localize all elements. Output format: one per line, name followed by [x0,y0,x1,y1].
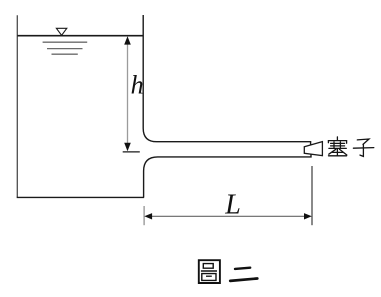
L dimension right tick [311,166,313,225]
tank bottom [17,196,144,198]
water hatch line 3 [52,53,78,55]
svg-text:L: L [224,190,241,221]
glyph 塞 [328,137,346,156]
L dimension left tick [143,206,145,225]
water hatch line 2 [47,48,83,50]
glyph 圖 [199,260,220,283]
water hatch line 1 [43,41,88,43]
L arrowhead left [144,213,152,219]
caption 圖二 (drawn glyphs, bold) [199,260,257,283]
tank right wall + pipe top line + pipe end cap [143,15,310,145]
label 塞子 (drawn glyphs) [328,137,373,157]
svg-text:h: h [131,71,144,100]
h arrowhead bottom [124,143,131,151]
h bottom reference tick [123,151,140,153]
water level triangle symbol [56,28,66,35]
h arrowhead top [124,36,131,44]
L dimension arrow line [146,215,310,217]
pipe bottom line + lower tank wall [144,154,311,197]
glyph 二 [230,268,257,281]
water surface line [17,35,143,37]
plug trapezoid [304,142,322,156]
h dimension arrow line [127,41,129,145]
tank left wall [16,15,18,197]
glyph 子 [353,139,373,156]
L arrowhead right [304,213,312,219]
